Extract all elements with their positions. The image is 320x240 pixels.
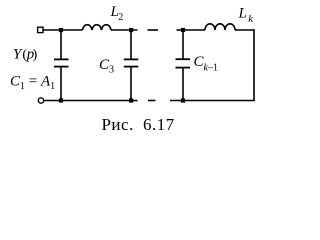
node: junction bottom rail / C1 branch <box>59 98 63 102</box>
capacitor C1 plates <box>54 58 69 60</box>
capacitor C3 lead from top junction <box>130 30 132 59</box>
svg-text:Рис. 6.17: Рис. 6.17 <box>102 115 175 134</box>
capacitor C3 lead to bottom rail <box>130 67 132 101</box>
wire: right edge vertical <box>253 29 255 101</box>
capacitor Ck-1 lead to bottom rail <box>182 68 184 101</box>
capacitor Ck-1 lead from top junction <box>182 30 184 59</box>
svg-text:2: 2 <box>118 12 123 23</box>
wire bottom rail right section <box>170 100 255 102</box>
wire bottom rail left section <box>44 100 138 102</box>
node: junction top rail / C1 branch <box>59 28 63 32</box>
node: junction top rail / Ck-1 branch <box>181 28 185 32</box>
svg-text:Ck–1: Ck–1 <box>194 54 218 74</box>
svg-text:): ) <box>33 48 38 63</box>
svg-text:C1 = A1: C1 = A1 <box>10 74 55 93</box>
input terminal (bottom left, open circle) <box>38 98 43 103</box>
inductor L2 <box>83 25 112 30</box>
capacitor C1 lead to bottom rail <box>60 67 62 101</box>
capacitor C3 plates <box>124 58 139 60</box>
capacitor Ck-1 plates <box>176 58 191 60</box>
input terminal (top left, open square) <box>38 27 43 32</box>
capacitor C1 lead from top junction <box>60 30 62 59</box>
wire: L2 to junction and stub before dashed break <box>111 29 138 31</box>
node: junction top rail / C3 branch <box>129 28 133 32</box>
node: junction bottom rail / Ck-1 branch <box>181 98 185 102</box>
svg-text:C3: C3 <box>99 57 114 76</box>
wire: top rail right section to inductor Lk <box>177 29 206 31</box>
wire top-left: terminal to inductor L2 <box>43 29 83 31</box>
inductor Lk <box>205 24 235 30</box>
wire dash (bottom rail break) <box>148 100 156 102</box>
wire dash (top rail break) <box>148 29 159 31</box>
svg-text:k: k <box>248 14 253 25</box>
svg-text:L: L <box>238 5 247 21</box>
node: junction bottom rail / C3 branch <box>129 98 133 102</box>
wire: Lk to right edge <box>235 29 254 31</box>
